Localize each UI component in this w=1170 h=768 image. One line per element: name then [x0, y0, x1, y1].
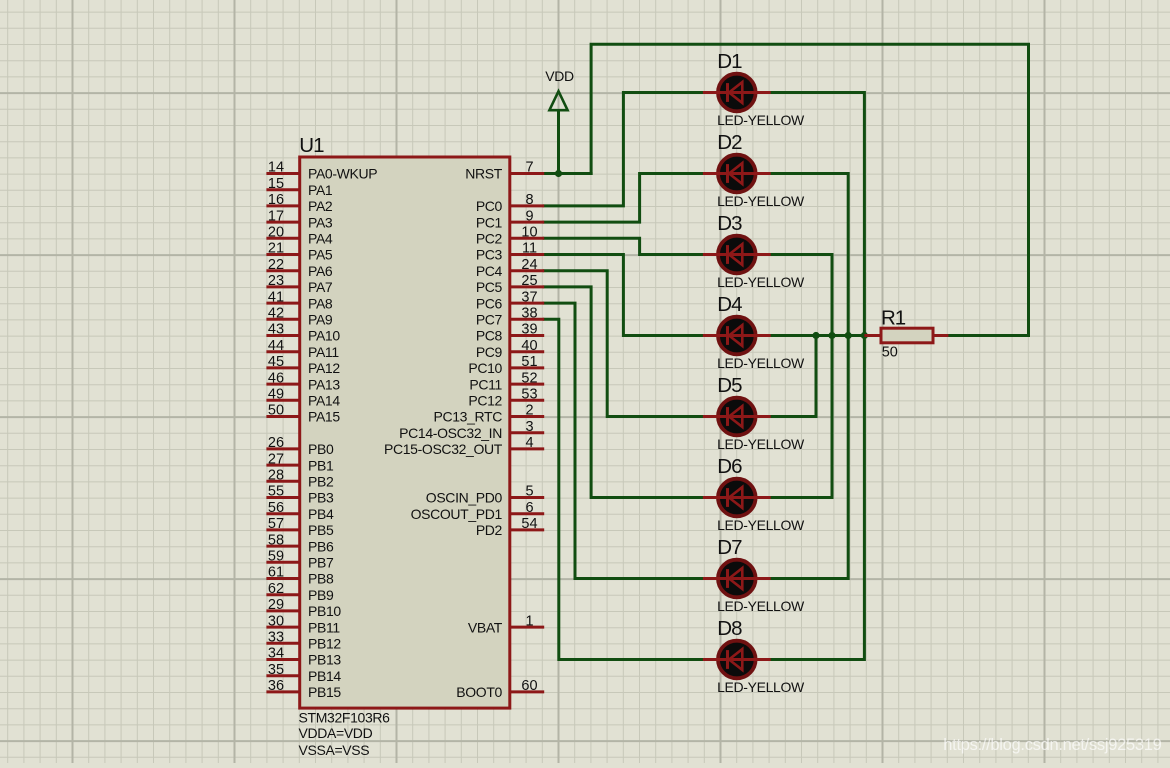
pin PB8 (61) left stub [266, 565, 334, 587]
svg-text:17: 17 [268, 208, 284, 224]
pin PB14 (35) left stub [266, 662, 341, 684]
svg-text:VDDA=VDD: VDDA=VDD [299, 725, 373, 741]
svg-text:STM32F103R6: STM32F103R6 [299, 709, 391, 725]
pin PA10 (43) left stub [266, 322, 340, 344]
pin PA7 (23) left stub [266, 273, 333, 295]
wire PC3 to D4 anode [544, 255, 704, 336]
wire PC1 to D2 anode [544, 174, 704, 223]
pin PC3 (11) right stub [476, 241, 544, 263]
label STM32F103R6 / VDDA=VDD / VSSA=VSS [299, 709, 391, 758]
pin PC9 (40) right stub [476, 338, 544, 360]
svg-text:PA8: PA8 [308, 295, 333, 311]
svg-text:55: 55 [268, 484, 284, 500]
svg-text:PB10: PB10 [308, 603, 341, 619]
svg-text:49: 49 [268, 387, 284, 403]
svg-text:PA3: PA3 [308, 214, 333, 230]
svg-text:LED-YELLOW: LED-YELLOW [717, 193, 805, 209]
junction VDD/NRST [555, 170, 562, 177]
pin VBAT (1) right stub [468, 613, 544, 635]
wire D8 cathode to R1 node [770, 336, 865, 660]
svg-text:21: 21 [268, 241, 284, 257]
svg-text:PB5: PB5 [308, 522, 334, 538]
svg-text:PB11: PB11 [308, 619, 340, 635]
pin OSCOUT_PD1 (6) right stub [411, 500, 545, 522]
wire PC6 to D7 anode [544, 303, 704, 578]
svg-text:27: 27 [268, 451, 284, 467]
svg-text:D3: D3 [717, 212, 742, 235]
svg-text:PB7: PB7 [308, 555, 334, 571]
svg-text:LED-YELLOW: LED-YELLOW [717, 355, 805, 371]
svg-text:56: 56 [268, 500, 284, 516]
svg-text:PC6: PC6 [476, 295, 503, 311]
svg-text:60: 60 [521, 678, 537, 694]
svg-text:25: 25 [521, 273, 537, 289]
svg-text:PB13: PB13 [308, 652, 341, 668]
svg-text:PC12: PC12 [468, 393, 502, 409]
junction D5 at R1 node [812, 332, 819, 339]
svg-text:PB14: PB14 [308, 668, 341, 684]
svg-text:PA15: PA15 [308, 409, 340, 425]
svg-text:PC13_RTC: PC13_RTC [433, 409, 502, 425]
pin PB5 (57) left stub [266, 516, 334, 538]
svg-text:53: 53 [521, 387, 537, 403]
svg-text:PC9: PC9 [476, 344, 503, 360]
wire PC7 to D8 anode [544, 319, 704, 659]
svg-text:54: 54 [521, 516, 537, 532]
svg-text:PC14-OSC32_IN: PC14-OSC32_IN [399, 425, 502, 441]
svg-text:PA10: PA10 [308, 328, 340, 344]
wire D5 cathode to R1 node [770, 336, 816, 417]
pin PC4 (24) right stub [476, 257, 544, 279]
svg-text:D7: D7 [717, 536, 742, 559]
svg-text:PA11: PA11 [308, 344, 339, 360]
svg-text:U1: U1 [299, 134, 324, 157]
wire D7 cathode to R1 node [770, 336, 849, 579]
svg-text:14: 14 [268, 160, 284, 176]
svg-text:PC7: PC7 [476, 312, 503, 328]
svg-text:52: 52 [521, 370, 537, 386]
svg-text:PB1: PB1 [308, 457, 334, 473]
svg-text:42: 42 [268, 306, 284, 322]
svg-text:PD2: PD2 [476, 522, 503, 538]
svg-text:D5: D5 [717, 374, 742, 397]
pin PA12 (45) left stub [266, 354, 340, 376]
pin PC13_RTC (2) right stub [433, 403, 544, 425]
pin PC8 (39) right stub [476, 322, 544, 344]
pin PA14 (49) left stub [266, 387, 340, 409]
svg-text:NRST: NRST [465, 166, 503, 182]
pin PC15-OSC32_OUT (4) right stub [384, 435, 544, 457]
svg-text:57: 57 [268, 516, 284, 532]
pin PB10 (29) left stub [266, 597, 341, 619]
svg-text:VBAT: VBAT [468, 619, 503, 635]
svg-text:11: 11 [522, 241, 537, 257]
wire D3 cathode to R1 node [770, 255, 832, 336]
svg-text:40: 40 [521, 338, 537, 354]
svg-text:https://blog.csdn.net/ssj92531: https://blog.csdn.net/ssj925319 [943, 736, 1161, 754]
pin PA3 (17) left stub [266, 208, 333, 230]
LED D8 (LED-YELLOW) [703, 641, 771, 679]
pin PC12 (53) right stub [468, 387, 544, 409]
pin PC0 (8) right stub [476, 192, 544, 214]
pin PB3 (55) left stub [266, 484, 334, 506]
pin PA5 (21) left stub [266, 241, 333, 263]
svg-text:PA12: PA12 [308, 360, 340, 376]
pin PB4 (56) left stub [266, 500, 334, 522]
svg-text:PA0-WKUP: PA0-WKUP [308, 166, 377, 182]
svg-text:9: 9 [525, 208, 533, 224]
junction D3/D6 at R1 node [828, 332, 835, 339]
svg-text:51: 51 [521, 354, 537, 370]
pin PA1 (15) left stub [266, 176, 333, 198]
svg-text:PC5: PC5 [476, 279, 503, 295]
wire PC4 to D5 anode [544, 271, 704, 417]
svg-text:43: 43 [268, 322, 284, 338]
pin PA6 (22) left stub [266, 257, 333, 279]
LED D4 (LED-YELLOW) [703, 317, 771, 355]
pin PA13 (46) left stub [266, 370, 340, 392]
svg-text:1: 1 [525, 613, 533, 629]
pin BOOT0 (60) right stub [456, 678, 544, 700]
LED D7 (LED-YELLOW) [703, 560, 771, 598]
svg-text:39: 39 [521, 322, 537, 338]
svg-text:D6: D6 [717, 455, 742, 478]
svg-text:20: 20 [268, 225, 284, 241]
pin PC1 (9) right stub [476, 208, 544, 230]
svg-text:8: 8 [525, 192, 533, 208]
svg-text:PA7: PA7 [308, 279, 333, 295]
svg-text:35: 35 [268, 662, 284, 678]
svg-text:VDD: VDD [545, 68, 574, 84]
svg-text:LED-YELLOW: LED-YELLOW [717, 679, 805, 695]
svg-text:BOOT0: BOOT0 [456, 684, 502, 700]
pin PA8 (41) left stub [266, 289, 333, 311]
pin PC6 (37) right stub [476, 289, 544, 311]
svg-text:2: 2 [525, 403, 533, 419]
resistor R1 body [881, 328, 933, 343]
svg-text:62: 62 [268, 581, 284, 597]
svg-text:LED-YELLOW: LED-YELLOW [717, 598, 805, 614]
pin PC11 (52) right stub [469, 370, 544, 392]
svg-text:45: 45 [268, 354, 284, 370]
wire PC0 to D1 anode [544, 93, 704, 206]
svg-text:PC0: PC0 [476, 198, 503, 214]
svg-text:22: 22 [268, 257, 284, 273]
svg-text:5: 5 [525, 484, 533, 500]
pin PC14-OSC32_IN (3) right stub [399, 419, 544, 441]
svg-text:LED-YELLOW: LED-YELLOW [717, 517, 805, 533]
LED D3 (LED-YELLOW) [703, 236, 771, 274]
pin PC2 (10) right stub [476, 225, 544, 247]
svg-text:PA1: PA1 [308, 182, 333, 198]
svg-text:PC11: PC11 [469, 376, 502, 392]
wire D4 cathode to R1 left lead [770, 334, 865, 337]
pin PA0-WKUP (14) left stub [266, 160, 377, 182]
pin PC5 (25) right stub [476, 273, 544, 295]
pin PB1 (27) left stub [266, 451, 334, 473]
pin PA4 (20) left stub [266, 225, 333, 247]
svg-text:D4: D4 [717, 293, 742, 316]
svg-text:7: 7 [525, 160, 533, 176]
svg-text:4: 4 [525, 435, 533, 451]
svg-text:PB9: PB9 [308, 587, 334, 603]
svg-text:37: 37 [521, 289, 537, 305]
svg-text:PB6: PB6 [308, 538, 334, 554]
svg-text:46: 46 [268, 370, 284, 386]
svg-text:23: 23 [268, 273, 284, 289]
junction D2/D7 at R1 node [845, 332, 852, 339]
svg-text:PB8: PB8 [308, 571, 334, 587]
svg-text:6: 6 [525, 500, 533, 516]
svg-text:PC8: PC8 [476, 328, 503, 344]
wire D6 cathode to R1 node [770, 336, 832, 498]
svg-text:41: 41 [268, 289, 284, 305]
svg-text:PB15: PB15 [308, 684, 341, 700]
svg-text:PA9: PA9 [308, 312, 333, 328]
junction D1/D8 at R1 node [861, 332, 868, 339]
svg-text:PC4: PC4 [476, 263, 503, 279]
svg-text:PA6: PA6 [308, 263, 333, 279]
svg-text:OSCIN_PD0: OSCIN_PD0 [426, 490, 503, 506]
chip U1 STM32F103R6 body [300, 157, 510, 708]
pin PA2 (16) left stub [266, 192, 333, 214]
svg-text:33: 33 [268, 630, 284, 646]
svg-text:PC10: PC10 [468, 360, 502, 376]
pin PB13 (34) left stub [266, 646, 341, 668]
svg-text:PC15-OSC32_OUT: PC15-OSC32_OUT [384, 441, 503, 457]
pin PB2 (28) left stub [266, 468, 334, 490]
svg-text:PC3: PC3 [476, 247, 503, 263]
svg-text:PA2: PA2 [308, 198, 333, 214]
pin OSCIN_PD0 (5) right stub [426, 484, 544, 506]
svg-text:61: 61 [268, 565, 284, 581]
svg-text:LED-YELLOW: LED-YELLOW [717, 274, 805, 290]
svg-text:VSSA=VSS: VSSA=VSS [299, 742, 370, 758]
svg-text:PC1: PC1 [476, 214, 503, 230]
pin PB9 (62) left stub [266, 581, 334, 603]
svg-text:34: 34 [268, 646, 284, 662]
svg-text:28: 28 [268, 468, 284, 484]
svg-text:PA4: PA4 [308, 231, 333, 247]
LED D2 (LED-YELLOW) [703, 155, 771, 193]
svg-text:LED-YELLOW: LED-YELLOW [717, 112, 805, 128]
pin PB7 (59) left stub [266, 549, 334, 571]
pin PA15 (50) left stub [266, 403, 340, 425]
LED D1 (LED-YELLOW) [703, 74, 771, 112]
LED D6 (LED-YELLOW) [703, 479, 771, 517]
LED D5 (LED-YELLOW) [703, 398, 771, 436]
svg-text:PB2: PB2 [308, 474, 334, 490]
svg-text:LED-YELLOW: LED-YELLOW [717, 436, 805, 452]
svg-text:PB4: PB4 [308, 506, 334, 522]
pin PB15 (36) left stub [266, 678, 341, 700]
wire D1 cathode to R1 node [770, 93, 865, 336]
svg-text:PA14: PA14 [308, 393, 340, 409]
pin PC7 (38) right stub [476, 306, 544, 328]
svg-text:PB12: PB12 [308, 636, 341, 652]
svg-text:PC2: PC2 [476, 231, 503, 247]
wire D2 cathode to R1 node [770, 174, 849, 336]
svg-text:OSCOUT_PD1: OSCOUT_PD1 [411, 506, 503, 522]
pin PB6 (58) left stub [266, 532, 334, 554]
svg-text:3: 3 [525, 419, 533, 435]
svg-text:D1: D1 [717, 50, 742, 73]
pin PB12 (33) left stub [266, 630, 341, 652]
svg-text:38: 38 [521, 306, 537, 322]
svg-text:44: 44 [268, 338, 284, 354]
svg-text:16: 16 [268, 192, 284, 208]
svg-text:PA5: PA5 [308, 247, 333, 263]
wire PC2 to D3 anode [544, 238, 704, 254]
wire NRST pin to VDD junction [544, 172, 591, 175]
pin PA11 (44) left stub [266, 338, 339, 360]
pin PC10 (51) right stub [468, 354, 544, 376]
power VDD arrow [549, 91, 567, 173]
resistor R1 leads [864, 334, 948, 337]
wire PC5 to D6 anode [544, 287, 704, 498]
svg-text:10: 10 [521, 225, 537, 241]
svg-text:D8: D8 [717, 617, 742, 640]
pin PD2 (54) right stub [476, 516, 544, 538]
svg-text:15: 15 [268, 176, 284, 192]
svg-text:36: 36 [268, 678, 284, 694]
pin PB0 (26) left stub [266, 435, 334, 457]
svg-text:PB3: PB3 [308, 490, 334, 506]
svg-text:59: 59 [268, 549, 284, 565]
svg-text:D2: D2 [717, 131, 742, 154]
svg-text:PB0: PB0 [308, 441, 334, 457]
wire VDD net top loop to R1 right [591, 44, 1028, 335]
svg-text:24: 24 [521, 257, 537, 273]
svg-text:PA13: PA13 [308, 376, 340, 392]
svg-text:26: 26 [268, 435, 284, 451]
svg-text:30: 30 [268, 613, 284, 629]
pin PB11 (30) left stub [266, 613, 340, 635]
pin NRST (7) right stub [465, 160, 544, 182]
svg-text:R1: R1 [881, 306, 906, 329]
svg-text:50: 50 [268, 403, 284, 419]
svg-text:58: 58 [268, 532, 284, 548]
pin PA9 (42) left stub [266, 306, 333, 328]
svg-text:50: 50 [882, 344, 898, 360]
svg-text:29: 29 [268, 597, 284, 613]
